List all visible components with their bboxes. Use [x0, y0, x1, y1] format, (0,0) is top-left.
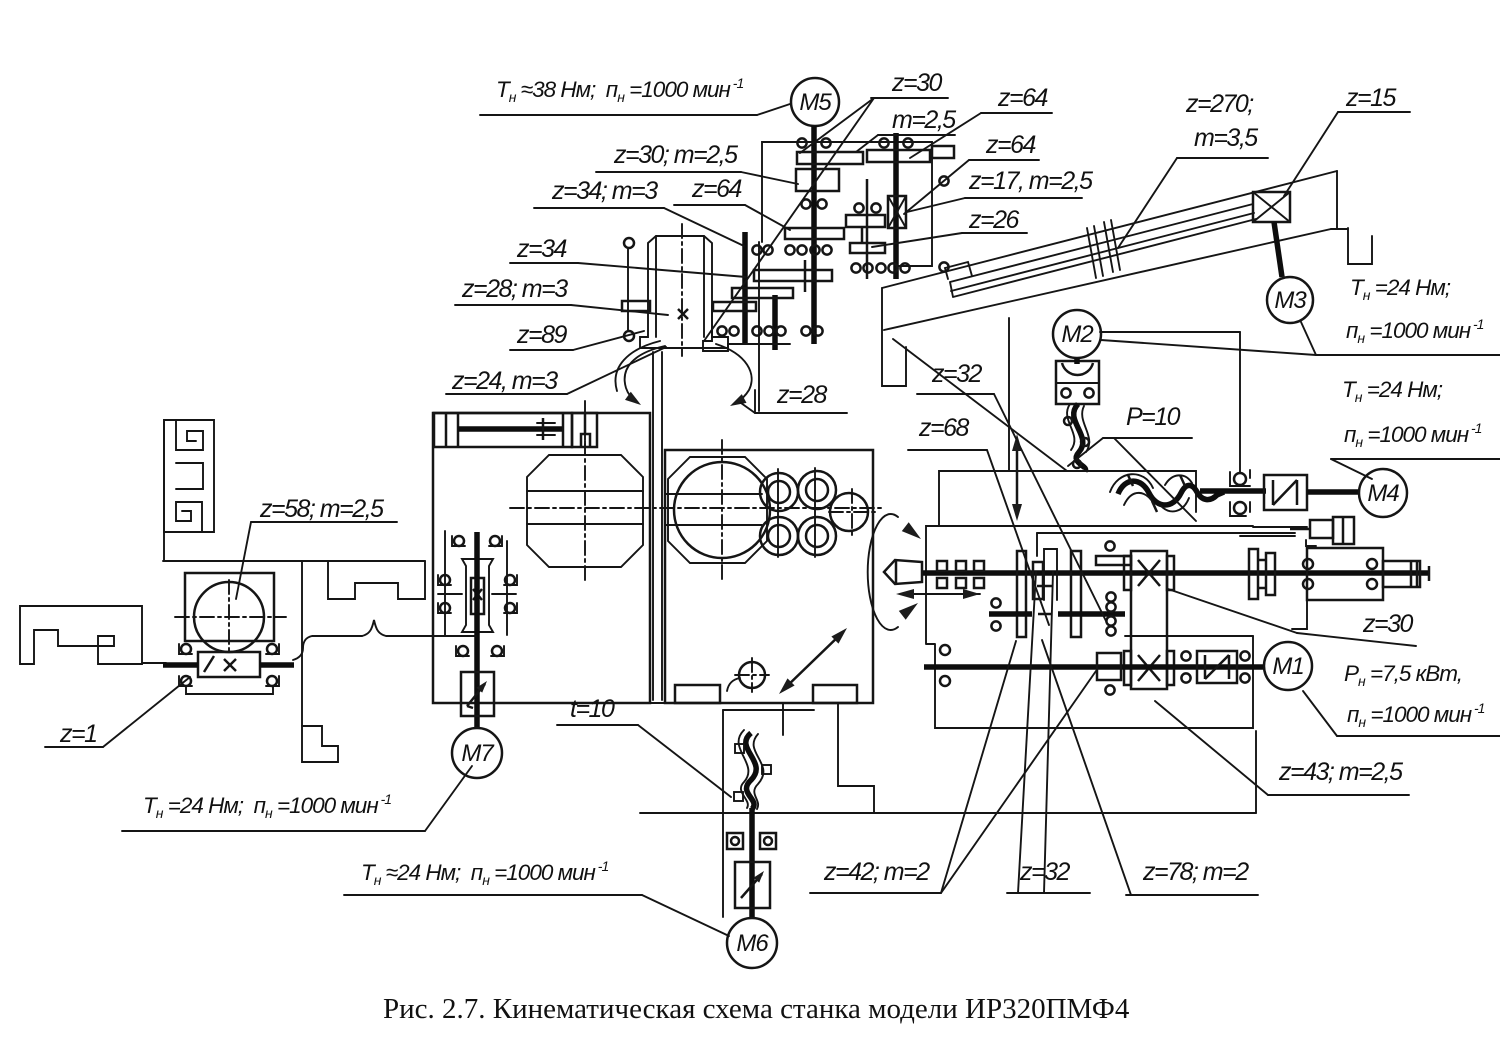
idler circle — [830, 493, 868, 531]
leader line z=68 — [908, 449, 987, 451]
leader line to M5 — [480, 114, 757, 116]
band right end — [1331, 171, 1372, 264]
bevel transfer box with X pair — [1131, 551, 1167, 689]
svg-text:P=10: P=10 — [1126, 403, 1181, 431]
splined sleeve — [1383, 561, 1420, 587]
leader lines z=30 — [871, 97, 948, 99]
main drive gear (big circle) — [674, 462, 770, 558]
svg-text:М1: М1 — [1272, 653, 1303, 680]
svg-text:М5: М5 — [799, 89, 832, 116]
quill centerline — [681, 224, 683, 356]
svg-text:z=64: z=64 — [985, 131, 1036, 159]
svg-text:z=58; m=2,5: z=58; m=2,5 — [259, 495, 384, 523]
rack left end cap — [945, 262, 972, 279]
leader line P=10 — [1103, 437, 1192, 439]
screw box with cross — [198, 652, 260, 677]
belt shaft to clutch — [1200, 488, 1266, 494]
feed direction arrow — [900, 593, 980, 595]
leader line z=270 — [1177, 157, 1268, 159]
tool magazine gear pair — [760, 473, 798, 511]
svg-text:М6: М6 — [736, 930, 769, 957]
leader line z=78 — [1126, 894, 1258, 896]
C rotation ellipse — [868, 514, 898, 630]
coupling on spindle shaft — [1249, 549, 1258, 599]
spindle end housing — [1307, 548, 1383, 600]
svg-text:z=30: z=30 — [891, 69, 943, 97]
leader line z=32 upper — [917, 393, 994, 395]
gear block z=30 — [796, 169, 839, 191]
leader line t=10 — [557, 724, 638, 726]
gear plate z=78 — [1071, 551, 1081, 637]
svg-text:z=1: z=1 — [59, 720, 97, 748]
leader line z=15 — [1338, 111, 1410, 113]
C-axis swivel arrow left — [625, 346, 665, 402]
table top line — [163, 560, 425, 562]
clamp blocks top right — [1310, 520, 1333, 538]
worm gear spool M7 — [462, 559, 493, 632]
bearing column — [1105, 541, 1114, 550]
svg-text:z=270;: z=270; — [1185, 90, 1254, 118]
leadscrew shaft — [163, 662, 198, 668]
bearing pair top shaft II — [879, 138, 888, 147]
diagonal travel arrow — [784, 633, 842, 689]
motor M6 — [727, 918, 777, 968]
dog clutch block — [1033, 562, 1043, 599]
bevel X in quill — [678, 309, 688, 319]
C-axis swivel arrow right — [716, 344, 752, 404]
svg-text:t=10: t=10 — [570, 695, 615, 723]
leader line z=28 m=3 — [455, 304, 571, 306]
centreline vertical — [721, 440, 723, 582]
bearing pair M6 — [727, 833, 743, 849]
tool clamp cylinder — [434, 413, 572, 447]
overload clutch M1 (И) — [1197, 651, 1237, 683]
svg-text:М2: М2 — [1061, 321, 1093, 348]
slideway meander upper — [164, 420, 214, 532]
quill body (boring spindle sleeve) — [640, 236, 728, 348]
svg-text:z=32: z=32 — [931, 360, 983, 388]
spindle head right box — [665, 450, 873, 703]
centreline horizontal — [510, 507, 882, 509]
shaft clutch to M4 — [1307, 489, 1360, 495]
belt housing box — [939, 471, 1196, 525]
svg-text:z=34: z=34 — [516, 235, 567, 263]
safety clutch M6 — [735, 862, 770, 908]
magazine gear centerlines — [777, 469, 779, 557]
motor M3 — [1267, 277, 1313, 323]
pickoff bearings — [991, 598, 1000, 607]
leader line z=34 m=3 — [534, 207, 664, 209]
svg-text:z=30; m=2,5: z=30; m=2,5 — [613, 141, 738, 169]
slideway meander small — [302, 726, 338, 762]
lower shaft bearings — [940, 645, 950, 655]
overload clutch M4 (И) — [1264, 475, 1307, 510]
slideway meander mid — [328, 561, 425, 599]
leader line M1 label — [1337, 735, 1500, 737]
spindle bearings front — [937, 561, 947, 571]
bearings ballscrew — [181, 644, 191, 654]
svg-text:z=30: z=30 — [1362, 610, 1414, 638]
foot left — [675, 685, 720, 703]
wide gear z=64 — [785, 228, 844, 239]
svg-text:z=64: z=64 — [691, 175, 742, 203]
shaft end — [1428, 566, 1431, 581]
svg-text:Рис. 2.7. Кинематическая схема: Рис. 2.7. Кинематическая схема станка мо… — [383, 993, 1130, 1025]
leader line z=58 — [251, 521, 397, 523]
bearings M7 mid — [440, 575, 450, 585]
wire M2 to right — [1100, 331, 1240, 333]
flexible shaft M6 — [746, 733, 756, 809]
svg-text:z=42; m=2: z=42; m=2 — [823, 858, 930, 886]
svg-text:z=26: z=26 — [968, 206, 1020, 234]
housing bottom step — [703, 305, 790, 351]
svg-text:z=34; m=3: z=34; m=3 — [551, 177, 658, 205]
leader line z=43 — [1268, 794, 1409, 796]
motor M1 — [1264, 642, 1312, 690]
vertical travel arrow — [1016, 442, 1019, 513]
leader lines z=42 — [810, 892, 941, 894]
svg-text:пн =1000 мин -1: пн =1000 мин -1 — [1344, 420, 1482, 450]
bearing row right — [851, 263, 860, 272]
pinion z=15 with X — [1253, 192, 1290, 222]
shaft of M5 (vertical) — [811, 126, 817, 344]
svg-text:М7: М7 — [461, 740, 495, 767]
gear octagon right — [668, 457, 767, 563]
machine bed edge line — [893, 339, 1067, 471]
svg-text:М3: М3 — [1274, 287, 1307, 314]
M2 coupling housing — [1056, 361, 1099, 404]
svg-text:m=3,5: m=3,5 — [1194, 124, 1258, 152]
leader line z=26 — [962, 232, 1027, 234]
bearing pair top shaft I — [797, 138, 806, 147]
bearings M7 top — [454, 536, 464, 546]
svg-text:z=24, m=3: z=24, m=3 — [451, 367, 558, 395]
motor M7 — [452, 728, 502, 778]
wire vertical left of M2 — [1008, 318, 1010, 471]
shaft IV vertical — [742, 232, 748, 344]
table line — [640, 812, 1256, 814]
spindle head left box — [433, 413, 650, 703]
spindle bore lines — [666, 493, 762, 495]
motor M5 — [791, 78, 839, 126]
shaft III vertical — [866, 179, 869, 279]
svg-text:m=2,5: m=2,5 — [892, 106, 956, 134]
gear plate z=42 — [1017, 551, 1026, 637]
pickoff shaft — [989, 611, 1032, 617]
gear bar on shaft IV — [732, 288, 793, 298]
svg-text:z=43; m=2,5: z=43; m=2,5 — [1278, 758, 1403, 786]
leader line M3 label — [1316, 354, 1500, 356]
svg-text:z=28: z=28 — [776, 381, 828, 409]
wavy belt coupling — [1118, 481, 1224, 505]
M2 stub shaft — [1074, 358, 1080, 364]
gear bar on shaft I lower — [754, 270, 832, 281]
bearing blocks — [1234, 473, 1246, 485]
shaft V vertical — [772, 295, 778, 350]
wire to z=28 label — [758, 242, 760, 411]
bearing row bottom — [717, 326, 726, 335]
leader outline z=28 — [755, 412, 847, 414]
guide rail left of quill — [627, 249, 629, 330]
svg-text:пн =1000 мин -1: пн =1000 мин -1 — [1347, 700, 1485, 730]
svg-text:z=89: z=89 — [516, 321, 568, 349]
bearings M7 lower — [458, 646, 468, 656]
sliding gear rail z=30/z=64 — [797, 152, 863, 164]
shaft M7 vertical — [474, 532, 480, 728]
svg-text:пн =1000 мин -1: пн =1000 мин -1 — [1346, 316, 1484, 346]
step outline right — [838, 703, 874, 813]
leader line z=64 third — [674, 204, 745, 206]
ballscrew ball (big circle) — [194, 582, 264, 652]
leader line z=64 — [981, 112, 1052, 114]
bevel gear z=17 with X — [888, 196, 906, 228]
wire to lower slideway — [301, 561, 303, 726]
leader line z=24 — [446, 393, 567, 395]
leader line z=30 m=2,5 — [596, 171, 741, 173]
feed lower shaft — [924, 664, 1264, 670]
wire left column — [163, 420, 165, 561]
head box bottom legs — [433, 702, 873, 704]
leader line M6 label — [344, 894, 642, 896]
rack bar z=270 — [950, 204, 1256, 297]
leader line m=2,5 — [878, 134, 955, 136]
leader line z=89 — [510, 349, 573, 351]
gearbox housing (tool-magazine drive) — [762, 142, 932, 266]
gear octagon left — [527, 455, 643, 567]
svg-text:z=17, m=2,5: z=17, m=2,5 — [968, 167, 1093, 195]
motor M2 — [1053, 310, 1101, 358]
band left foot — [882, 288, 906, 386]
svg-text:z=68: z=68 — [918, 414, 970, 442]
feed gearbox housing — [926, 526, 1253, 728]
boring spindle shaft (horizontal) — [921, 570, 1429, 576]
worm housing M7 — [444, 531, 446, 635]
clutch sub-box — [1125, 635, 1253, 637]
gear z=43 — [1097, 653, 1121, 680]
index pin circle — [739, 662, 765, 688]
break marks on rack — [1087, 228, 1096, 278]
bearing pair below z=30 — [801, 199, 810, 208]
leader line M4 label — [1331, 458, 1500, 460]
svg-text:z=15: z=15 — [1345, 84, 1397, 112]
spindle nose cone — [884, 560, 922, 584]
leader line z=17 — [965, 197, 1082, 199]
svg-text:М4: М4 — [1367, 480, 1399, 507]
svg-text:z=28; m=3: z=28; m=3 — [461, 275, 568, 303]
ram side lines — [652, 352, 654, 700]
shaft M3 to pinion — [1274, 222, 1282, 277]
leader lines z=32 lower — [1007, 892, 1090, 894]
leader line z=64 second — [969, 159, 1039, 161]
leader line z=30 feed — [1297, 633, 1416, 646]
bearing row middle — [752, 245, 761, 254]
shaft II vertical — [893, 133, 899, 279]
leader line M7 label — [122, 830, 425, 832]
svg-text:z=64: z=64 — [997, 84, 1048, 112]
gear cluster z=26 — [846, 215, 885, 227]
leader line z=34 — [510, 262, 578, 264]
slideway meander big left — [20, 606, 142, 664]
machine band/overarm outline — [882, 171, 1337, 288]
leader line z=1 — [45, 746, 103, 748]
svg-text:z=78; m=2: z=78; m=2 — [1142, 858, 1249, 886]
ballscrew housing — [185, 573, 274, 641]
foot right — [813, 685, 857, 703]
bearing pair shaft III — [854, 203, 863, 212]
drive connection wire to M7 — [293, 636, 362, 660]
bearing right wall — [939, 176, 948, 185]
safety clutch M7 — [461, 672, 494, 716]
motor M4 — [1359, 469, 1407, 517]
gear bar on shaft V — [713, 302, 756, 311]
flexible shaft from M2 — [1074, 404, 1086, 471]
shaft M6 — [749, 808, 755, 918]
wire vertical right of M2 — [1239, 332, 1241, 473]
